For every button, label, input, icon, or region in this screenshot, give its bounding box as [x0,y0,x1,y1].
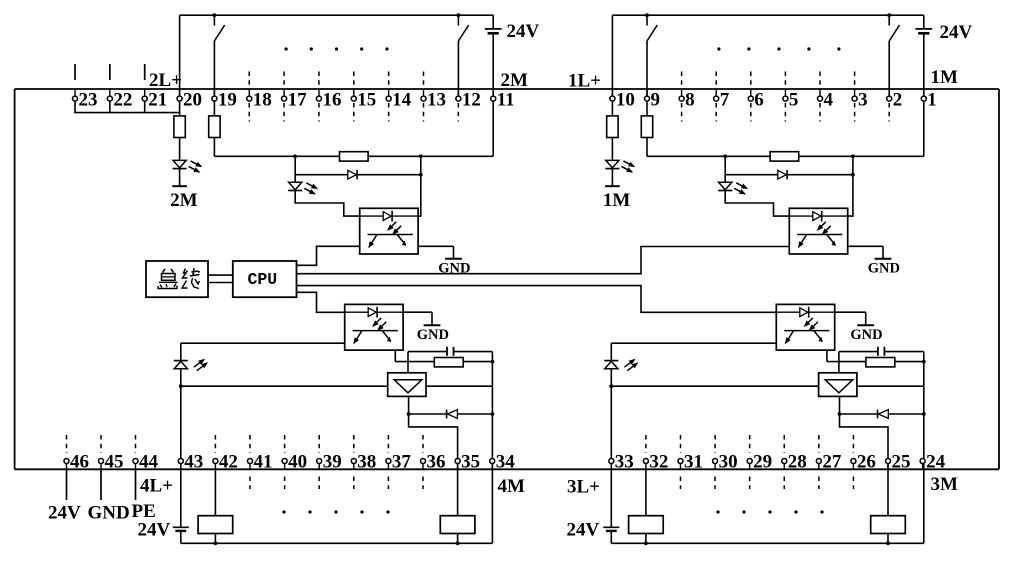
wire dashed stub below terminal 12 [457,103,459,122]
node input module 1 LED-branch junction [723,154,727,158]
wire input module 2 right edge below bus [492,89,494,156]
wire dashed stub below terminal 30 [714,477,716,490]
wire dashed stub above terminal 44 [135,435,137,453]
wire bus-to-CPU link lower [208,282,233,284]
svg-text:GND: GND [417,327,449,343]
node input module 1 S1 junction [645,13,649,17]
wire dashed stub above terminal 27 [818,435,820,453]
wire U4 cathode to ground [403,311,432,313]
terminal 6 [748,96,753,101]
battery input module 2 24V supply [485,28,502,30]
terminal input module 2 M-rail end bar [172,185,187,187]
wire dashed stub below terminal 13 [423,103,425,122]
svg-text:4M: 4M [498,476,526,497]
svg-text:25: 25 [892,452,911,473]
svg-text:20: 20 [183,89,202,110]
svg-text:34: 34 [496,452,516,473]
svg-text:2M: 2M [501,70,529,91]
wire bottom bus line [15,468,999,470]
svg-text:35: 35 [461,452,480,473]
svg-text:24V: 24V [507,21,540,42]
terminal 36 [421,459,426,464]
terminal 9 [645,96,650,101]
terminal input module 1 M-rail end bar [605,185,620,187]
wire output module 3 amp output [840,396,889,515]
wire output module 4 flyback diode line [409,413,493,415]
wire output module 4 left column lower [180,531,182,543]
capacitor output module 3 C1 [877,347,879,356]
node output module 3 relay 1 bottom junction [644,541,648,545]
ground GND U4 [431,312,433,325]
wire dashed stub above terminal 8 [681,72,683,87]
svg-text:24V: 24V [567,520,600,541]
wire input module 2 box bottom rail [214,155,493,157]
node output module 3 diode-line left junction [838,412,842,416]
ground GND U1 [882,246,884,258]
terminal 4 [818,96,823,101]
svg-text:19: 19 [218,89,237,110]
wire terminal risers bottom row R [922,463,924,469]
terminal 2 [887,96,892,101]
resistor output module 4 R4 (feedback) [434,358,463,367]
amplifier output module 3 driver [819,373,857,397]
terminal 24 [920,459,925,464]
wire input module 2 R2 to box bottom [213,138,215,157]
wire input module 1 right edge to bus [923,33,925,89]
terminal 40 [282,459,287,464]
svg-text:24V: 24V [940,22,973,43]
node input module 2 diode-line junction [419,173,423,177]
svg-text:7: 7 [720,89,730,110]
relay output module 4 K2 coil [440,516,475,534]
diode output module 4 D2 (flyback) [446,410,448,419]
svg-text:43: 43 [184,452,203,473]
svg-text:GND: GND [868,261,900,277]
wire output module 3 left column lower [610,531,612,543]
svg-text:37: 37 [392,452,412,473]
svg-text:13: 13 [427,89,446,110]
wire dashed stub above terminal 32 [645,435,647,453]
svg-text:3: 3 [858,89,868,110]
resistor input module 1 R1 [607,116,618,138]
amplifier output module 4 driver [388,373,426,397]
wire output module 3 left column upper [610,343,612,360]
terminal 25 [886,459,891,464]
wire input module 2 LED to M-rail end [179,169,181,186]
wire output module 3 flyback diode line [840,413,924,415]
terminal 3 [852,96,857,101]
svg-text:8: 8 [685,89,695,110]
svg-text:42: 42 [219,452,238,473]
resistor input module 1 R3 (series) [770,152,799,161]
svg-text:10: 10 [616,89,635,110]
svg-text:11: 11 [497,89,515,110]
wire dashed stub above terminal 13 [423,72,425,87]
ellipsis dots input module 1 [717,47,720,50]
svg-text:26: 26 [857,452,876,473]
node output module 3 amp-line junction [609,384,613,388]
resistor output module 3 R4 (feedback) [866,358,895,367]
LED output module 3 status indicator [605,361,618,368]
wire dashed stub above terminal 46 [66,435,68,453]
svg-text:5: 5 [789,89,799,110]
terminal 33 [609,459,614,464]
svg-text:1M: 1M [603,190,631,211]
wire input module 2 box left edge / first column [179,15,181,116]
svg-text:GND: GND [850,327,882,343]
wire input module 1 right edge top [923,15,925,29]
wire input module 2 LED to opto path [295,191,360,216]
svg-text:46: 46 [70,452,89,473]
wire dashed stub above terminal 7 [715,72,717,87]
svg-text:17: 17 [288,89,308,110]
wire dashed stub above terminal 16 [318,72,320,87]
wire input module 1 opto cathode vertical [848,156,853,216]
wire output module 4 relay 1 feed [214,469,216,515]
wire output module 3 relay 1 return [645,534,647,544]
wire output module 4 emitter line [181,342,345,344]
wire dashed stub above terminal 3 [854,72,856,87]
node output module 4 amp-line junction [179,384,183,388]
svg-text:18: 18 [253,89,272,110]
terminal 8 [679,96,684,101]
wire dashed stub below terminal 26 [852,477,854,490]
node input module 2 cathode-vertical top junction [419,154,423,158]
wire dashed stub above terminal 17 [283,72,285,87]
resistor input module 1 R2 [641,116,652,138]
switch input module 1 S2 [888,15,890,25]
wire input module 1 box left edge / first column [611,15,613,116]
switch input module 2 S1 [213,15,215,25]
ground GND U2 [453,246,455,258]
wire output module 3 cap line left [839,351,878,353]
wire dashed stub above terminal 30 [714,435,716,453]
svg-text:44: 44 [139,452,159,473]
wire output module 3 relay 2 return [887,534,889,544]
wire CPU pin1 to U2 emitter [297,246,360,265]
node output module 4 resistor-line right junction [491,360,495,364]
svg-text:1L+: 1L+ [568,71,601,92]
wire dashed stub below terminal 5 [784,103,786,122]
wire dashed stub below terminal 18 [248,103,250,122]
wire dashed stub above terminal 39 [318,435,320,453]
wire output module 3 collector vertical [826,345,828,362]
block CPU box [233,261,297,297]
optocoupler U3 output module 3 [776,304,834,350]
terminal 19 [212,96,217,101]
wire bus-to-CPU link upper [208,274,233,276]
terminal 29 [747,459,752,464]
svg-text:4: 4 [824,89,834,110]
terminal 15 [351,96,356,101]
terminal 20 [177,96,182,101]
node output module 4 relay 2 bottom junction [456,541,460,545]
wire dashed stub above terminal 40 [284,435,286,453]
node input module 2 S1 junction [213,13,217,17]
svg-text:CPU: CPU [248,270,278,289]
wire 2L+ sub-bus [75,101,180,112]
svg-text:31: 31 [684,452,703,473]
wire input module 2 box top [180,14,494,16]
terminal 34 [490,459,495,464]
wire input module 2 R1 to status LED [179,138,181,161]
terminal 38 [351,459,356,464]
wire output module 4 box bottom rail [181,542,493,544]
wire dashed stub below terminal 16 [318,103,320,122]
svg-text:15: 15 [357,89,376,110]
node input module 1 S2 junction [887,13,891,17]
svg-text:3L+: 3L+ [567,477,600,498]
wire terminal risers bottom row L [491,463,493,469]
svg-text:39: 39 [323,452,342,473]
relay output module 3 K2 coil [871,516,906,534]
svg-text:41: 41 [254,452,273,473]
wire output module 4 amp-top vertical [407,352,409,373]
wire output module 3 emitter line [611,342,776,344]
wire output module 3 resistor line [827,361,924,363]
wire dashed stub below terminal 17 [283,103,285,122]
svg-text:30: 30 [719,452,738,473]
diode input module 2 D1 [348,170,357,179]
wire terminal drops top row R [923,89,925,96]
wire output module 4 right edge [491,352,493,544]
terminal 26 [851,459,856,464]
svg-text:36: 36 [427,452,446,473]
LED input module 1 status indicator [606,160,619,167]
optocoupler U4 output module 4 [345,304,403,350]
node input module 1 diode-line junction [851,173,855,177]
wire dashed stub below terminal 36 [422,477,424,490]
svg-text:1M: 1M [931,67,959,88]
wire dashed stub below terminal 7 [715,103,717,122]
wire output module 4 cap line left [408,351,447,353]
node output module 4 diode-line right junction [491,412,495,416]
wire input module 1 LED branch vertical [724,156,726,182]
wire dashed stub above terminal 45 [100,435,102,453]
svg-text:1: 1 [927,89,937,110]
svg-text:22: 22 [113,89,132,110]
ellipsis dots input module 2 [285,47,288,50]
wire output module 4 relay 1 return [214,534,216,544]
wire dashed stub below terminal 27 [818,477,820,490]
terminal 14 [386,96,391,101]
wire dashed stub below terminal 38 [353,477,355,490]
battery input module 1 24V supply [915,28,932,30]
wire input module 1 R1 to status LED [611,138,613,161]
svg-text:4L+: 4L+ [140,476,173,497]
terminal 39 [317,459,322,464]
wire dashed stub below terminal 28 [783,477,785,490]
wire dashed stub above terminal 31 [679,435,681,453]
wire output module 4 resistor line [395,361,492,363]
wire stub below terminal 45 [100,469,102,500]
terminal 12 [456,96,461,101]
wire output module 4 left column mid [180,369,182,528]
node output module 4 diode-line left junction [407,412,411,416]
wire dashed stub above terminal 28 [783,435,785,453]
wire left border [14,89,16,469]
node input module 2 LED-branch junction [293,154,297,158]
wire stub below terminal 44 [135,469,137,500]
wire top bus line [15,88,999,90]
svg-text:16: 16 [322,89,341,110]
svg-text:33: 33 [615,452,634,473]
terminal 35 [455,459,460,464]
wire stub above terminal 21 [144,64,146,80]
svg-text:24V: 24V [48,503,81,524]
terminal 1 [921,96,926,101]
wire dashed stub below terminal 6 [750,103,752,122]
terminal 30 [713,459,718,464]
terminal 42 [213,459,218,464]
svg-text:14: 14 [392,89,412,110]
terminal 17 [282,96,287,101]
terminal 46 [64,459,69,464]
wire dashed stub above terminal 18 [248,72,250,87]
svg-text:45: 45 [105,452,124,473]
wire dashed stub above terminal 29 [749,435,751,453]
block 总线 bus-interface box [146,261,208,297]
terminal 43 [178,459,183,464]
wire dashed stub below terminal 4 [819,103,821,122]
wire input module 2 LED branch vertical [294,156,296,182]
wire input module 1 feedback diode line [725,174,853,176]
wire U2 collector to ground [418,245,453,247]
svg-text:2L+: 2L+ [149,70,182,91]
wire output module 4 amplifier input line [181,385,493,387]
svg-text:29: 29 [753,452,772,473]
wire dashed stub below terminal 41 [249,477,251,490]
wire dashed stub below terminal 15 [353,103,355,122]
wire dashed stub below terminal 40 [284,477,286,490]
wire CPU pin3 to U3 anode [297,286,777,313]
optocoupler U2 input module 2 [360,208,418,254]
svg-text:6: 6 [754,89,764,110]
wire dashed stub above terminal 5 [784,72,786,87]
wire output module 4 collector vertical [394,345,396,362]
resistor input module 2 R1 [174,116,185,138]
terminal 10 [610,96,615,101]
wire dashed stub above terminal 4 [819,72,821,87]
resistor input module 2 R2 [209,116,220,138]
terminal 22 [107,96,112,101]
svg-text:2M: 2M [170,190,198,211]
wire terminal drops top row L [492,89,494,96]
optocoupler U1 input module 1 [789,208,847,254]
wire input module 2 right edge top [492,15,494,29]
label 总线 text [163,269,166,273]
terminal 45 [99,459,104,464]
wire input module 1 LED to M-rail end [611,169,613,186]
LED output module 4 status indicator [174,361,187,368]
wire dashed stub below terminal 37 [387,477,389,490]
wire stub above terminal 22 [109,64,111,80]
wire input module 2 right edge to bus [492,33,494,89]
wire dashed stub above terminal 42 [214,435,216,453]
wire U1 collector to ground [848,245,883,247]
LED input module 1 opto drive LED [719,182,732,189]
wire stub above terminal 23 [74,64,76,80]
wire stub below terminal 46 [66,469,68,500]
terminal 21 [142,96,147,101]
wire output module 3 right edge [923,352,925,544]
terminal 28 [782,459,787,464]
wire output module 3 amp-top vertical [838,352,840,373]
svg-text:24: 24 [926,452,946,473]
terminal 18 [247,96,252,101]
wire dashed stub above terminal 26 [852,435,854,453]
wire output module 3 box bottom rail [611,542,924,544]
switch input module 1 S1 [646,15,648,25]
wire output module 3 cap line right [884,351,923,353]
diode output module 3 D2 (flyback) [877,410,879,419]
wire input module 1 right edge below bus [923,89,925,156]
svg-text:21: 21 [148,89,167,110]
svg-text:40: 40 [288,452,307,473]
capacitor output module 4 C1 [446,347,448,356]
wire output module 4 relay 2 return [457,534,459,544]
wire dashed stub below terminal 31 [679,477,681,490]
terminal 23 [73,96,78,101]
wire dashed stub above terminal 6 [750,72,752,87]
wire input module 1 R2 to box bottom [646,138,648,157]
wire dashed stub below terminal 3 [854,103,856,122]
wire dashed stub below terminal 39 [318,477,320,490]
wire dashed stub above terminal 14 [388,72,390,87]
terminal 13 [421,96,426,101]
wire dashed stub below terminal 14 [388,103,390,122]
svg-text:38: 38 [357,452,376,473]
node input module 2 S2 junction [457,13,461,17]
terminal 41 [248,459,253,464]
battery output module 4 24V supply [173,526,189,528]
terminal 16 [316,96,321,101]
wire output module 4 left column upper [180,343,182,360]
terminal 31 [678,459,683,464]
svg-text:24V: 24V [138,520,171,541]
wire dashed stub above terminal 41 [249,435,251,453]
relay output module 3 K1 coil [629,516,664,534]
node output module 3 diode-line right junction [922,412,926,416]
ellipsis dots output module 3 [716,510,719,513]
terminal 27 [816,459,821,464]
battery output module 3 24V supply [603,526,619,528]
wire output module 3 left column mid [610,369,612,528]
terminal 7 [714,96,719,101]
LED input module 2 opto drive LED [289,182,302,189]
wire input module 1 box top [612,14,923,16]
resistor input module 2 R3 (series) [340,152,369,161]
LED input module 2 status indicator [173,160,186,167]
node input module 1 cathode-vertical top junction [851,154,855,158]
svg-text:32: 32 [649,452,668,473]
switch input module 2 S2 [457,15,459,25]
wire right border [998,89,1000,469]
wire CPU pin2 to U1 emitter [297,247,790,274]
wire input module 1 LED to opto path [725,191,789,216]
wire dashed stub above terminal 37 [387,435,389,453]
terminal 37 [386,459,391,464]
wire dashed stub below terminal 29 [749,477,751,490]
wire output module 3 amplifier input line [611,385,924,387]
wire output module 3 relay 1 feed [645,469,647,515]
relay output module 4 K1 coil [198,516,233,534]
wire dashed stub below terminal 2 [888,103,890,122]
svg-text:12: 12 [462,89,481,110]
wire CPU pin4 to U4 anode [297,292,345,312]
wire U3 cathode to ground [835,311,866,313]
wire dashed stub above terminal 36 [422,435,424,453]
